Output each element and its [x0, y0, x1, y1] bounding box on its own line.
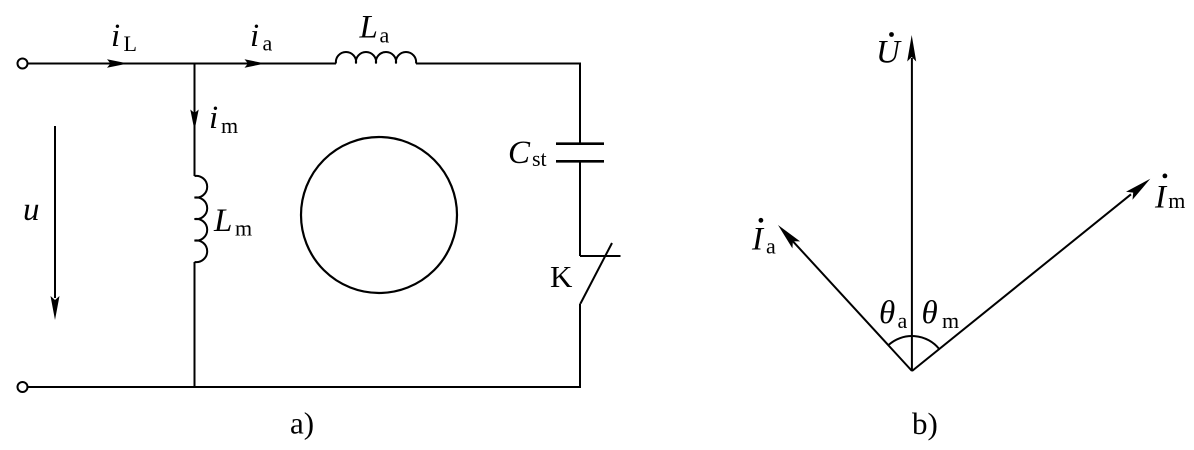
svg-text:i: i [250, 18, 259, 54]
inductor Lm [195, 176, 208, 262]
svg-text:i: i [111, 18, 120, 54]
wire branch node vertical [194, 64, 196, 177]
dot above U [889, 32, 894, 37]
svg-text:C: C [508, 135, 531, 171]
arrow voltage u [54, 126, 56, 298]
svg-text:a: a [898, 308, 908, 333]
capacitor Cst top plate [556, 142, 604, 145]
terminal bottom-left [18, 382, 28, 392]
angle arc [888, 336, 939, 349]
motor circle M [301, 137, 457, 293]
wire top from La to right corner [416, 64, 580, 144]
phasor Ia line [792, 240, 912, 371]
arrow current iL [107, 59, 128, 67]
phasor Ia arrowhead [778, 225, 800, 248]
svg-text:m: m [235, 216, 252, 241]
phasor Im line [912, 194, 1131, 371]
svg-text:I: I [1154, 180, 1168, 216]
dot above Im [1163, 174, 1168, 179]
phasor U arrowhead [907, 35, 916, 62]
dot above Ia [759, 218, 764, 223]
svg-text:L: L [359, 10, 378, 46]
svg-text:K: K [550, 259, 573, 294]
svg-text:I: I [751, 221, 765, 257]
wire top from terminal to inductor La [28, 63, 337, 65]
switch K upper contact tick [580, 255, 621, 257]
arrow current ia [245, 59, 266, 67]
svg-text:m: m [221, 113, 238, 138]
inductor La [336, 52, 416, 64]
svg-text:θ: θ [922, 295, 938, 331]
arrow current im [190, 110, 198, 131]
switch K blade [581, 243, 613, 304]
wire bottom [28, 386, 195, 388]
svg-text:L: L [124, 31, 137, 56]
svg-text:a: a [263, 31, 273, 56]
svg-text:a): a) [290, 406, 314, 441]
svg-text:m: m [1168, 188, 1185, 213]
wire capacitor to switch [579, 161, 581, 256]
capacitor Cst bottom plate [556, 160, 604, 163]
wire from Lm to bottom [194, 262, 196, 387]
wire switch to bottom [195, 304, 581, 388]
svg-text:U: U [876, 35, 902, 71]
svg-text:a: a [766, 233, 776, 258]
svg-text:a: a [380, 22, 390, 47]
svg-text:θ: θ [879, 295, 895, 331]
svg-text:m: m [942, 308, 959, 333]
svg-text:L: L [213, 203, 232, 239]
svg-text:i: i [209, 100, 218, 136]
svg-text:b): b) [912, 406, 938, 441]
svg-text:u: u [23, 192, 40, 228]
svg-text:st: st [532, 146, 547, 171]
arrowhead voltage u [51, 296, 60, 320]
terminal top-left [18, 59, 28, 69]
phasor U line [911, 58, 913, 371]
phasor Im arrowhead [1126, 179, 1150, 200]
